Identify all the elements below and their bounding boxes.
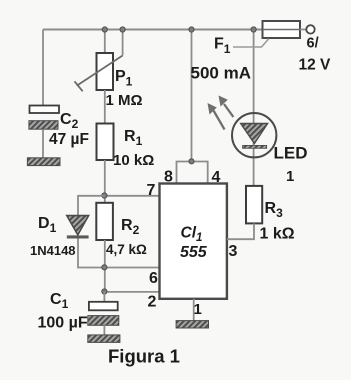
svg-text:F1: F1 <box>214 36 231 57</box>
ground (pin 1) <box>176 321 208 328</box>
wire LED branch from rail <box>253 30 255 186</box>
node junction rail/LED <box>251 27 256 32</box>
value 1 MΩ <box>106 92 143 109</box>
svg-text:6: 6 <box>149 270 158 287</box>
svg-text:1 kΩ: 1 kΩ <box>260 226 295 243</box>
wire to pin 2 <box>104 291 159 293</box>
label CI1 <box>181 225 203 245</box>
label R3 <box>265 200 284 220</box>
value 47 µF <box>49 131 89 148</box>
pin 2 <box>148 294 157 311</box>
label C2 <box>60 111 79 131</box>
value 4,7 kΩ <box>106 242 147 257</box>
svg-text:R1: R1 <box>124 128 143 148</box>
label R2 <box>121 217 140 237</box>
wire R1 to node 7 <box>104 160 106 203</box>
wire fuse to terminal <box>300 29 306 31</box>
resistor R1 <box>97 124 114 161</box>
value 1 kΩ <box>260 226 295 243</box>
label LED 1 <box>286 168 294 185</box>
svg-text:Figura 1: Figura 1 <box>108 346 180 367</box>
svg-text:4,7 kΩ: 4,7 kΩ <box>106 242 147 257</box>
svg-text:R2: R2 <box>121 217 140 237</box>
pin 8 <box>164 169 173 186</box>
label 6/ <box>307 36 319 52</box>
value 1N4148 <box>30 243 76 258</box>
svg-text:7: 7 <box>147 182 156 199</box>
svg-text:1N4148: 1N4148 <box>30 243 76 258</box>
svg-text:10 kΩ: 10 kΩ <box>113 152 154 169</box>
wire supply drop to pins 8/4 <box>191 30 193 162</box>
wire P1 top lead <box>104 30 106 54</box>
label D1 <box>38 215 57 235</box>
capacitor C1 <box>88 302 119 335</box>
label R1 <box>124 128 143 148</box>
pin 3 <box>229 243 238 260</box>
label F1 <box>214 36 231 57</box>
ground (below C2) <box>27 158 60 166</box>
svg-text:LED: LED <box>274 144 308 163</box>
svg-text:12 V: 12 V <box>299 57 332 74</box>
svg-text:1 MΩ: 1 MΩ <box>106 92 143 109</box>
wire to pin 6 <box>104 267 159 269</box>
svg-text:555: 555 <box>180 244 208 261</box>
wire node to C1 <box>103 292 105 302</box>
svg-text:C1: C1 <box>50 291 69 311</box>
node junction rail/wiper <box>120 27 125 32</box>
svg-text:500 mA: 500 mA <box>191 64 251 83</box>
node junction C1/pin2 <box>102 289 107 294</box>
wire P1 to R1 <box>104 90 106 124</box>
capacitor C2 <box>29 106 59 158</box>
wire D1 branch top <box>78 196 104 216</box>
label P1 <box>115 68 133 89</box>
node junction rail/IC supply <box>189 27 194 32</box>
label LED <box>274 144 308 163</box>
value 555 <box>180 244 208 261</box>
wire pin 1 to ground <box>193 299 195 321</box>
wire P1 wiper to rail <box>122 30 124 56</box>
wire top supply rail <box>43 29 263 31</box>
LED 1 <box>232 113 276 157</box>
wire bracket pins 8 and 4 <box>177 162 208 184</box>
op-amp CI1 555 IC body <box>160 184 227 299</box>
resistor R2 <box>96 203 113 240</box>
pin 1 <box>194 301 202 318</box>
resistor R3 <box>246 186 262 224</box>
svg-text:C2: C2 <box>60 111 79 131</box>
caption Figura 1 <box>108 346 180 367</box>
diode D1 <box>67 216 89 239</box>
node terminal circle <box>306 25 314 33</box>
pin 7 <box>147 182 156 199</box>
wire D1 branch bottom <box>78 239 104 268</box>
wire R2 to node 6 <box>104 240 106 292</box>
node junction bracket <box>189 159 194 164</box>
LED arrow 2 <box>219 96 234 118</box>
wire F1 leader line <box>233 39 269 48</box>
svg-text:P1: P1 <box>115 68 133 89</box>
node junction R1/R2/D1/pin7 <box>102 193 107 198</box>
svg-text:6/: 6/ <box>307 36 319 52</box>
wire R3 to pin 3 <box>227 223 254 239</box>
wire left branch down to C2 <box>42 30 44 106</box>
potentiometer P1 <box>75 53 123 91</box>
svg-text:100 µF: 100 µF <box>38 315 88 332</box>
svg-text:2: 2 <box>148 294 157 311</box>
value 100 µF <box>38 315 88 332</box>
svg-text:47 µF: 47 µF <box>49 131 89 148</box>
wire to pin 7 <box>104 195 159 197</box>
pin 4 <box>212 169 221 186</box>
svg-text:1: 1 <box>286 168 294 185</box>
value 500 mA <box>191 64 251 83</box>
svg-text:3: 3 <box>229 243 238 260</box>
svg-text:D1: D1 <box>38 215 57 235</box>
ground (below C1) <box>88 335 120 343</box>
svg-text:1: 1 <box>194 301 202 318</box>
fuse F1 <box>263 21 301 38</box>
LED arrow 1 <box>208 103 225 130</box>
label C1 <box>50 291 69 311</box>
svg-text:R3: R3 <box>265 200 284 220</box>
node junction rail/P1 <box>102 27 107 32</box>
node junction D1/R2/pin6 <box>102 265 107 270</box>
pin 6 <box>149 270 158 287</box>
value 10 kΩ <box>113 152 154 169</box>
label 12 V <box>299 57 332 74</box>
